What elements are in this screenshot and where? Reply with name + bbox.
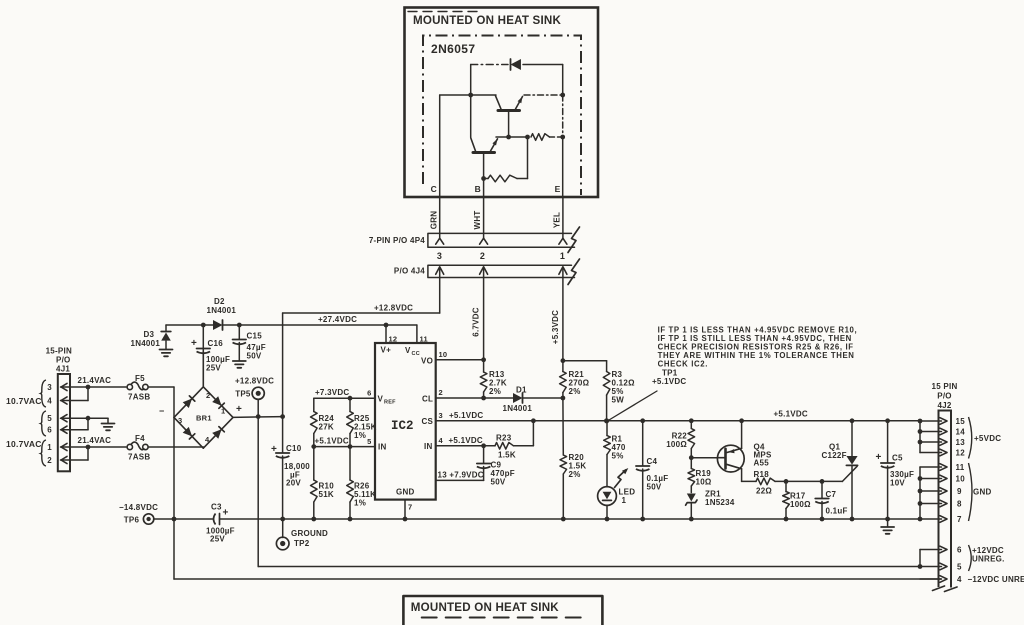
- label C15 47uF: [247, 343, 266, 352]
- label C5 plus: [876, 452, 882, 463]
- node C7 top: [820, 479, 825, 484]
- label pin 2: [439, 388, 443, 397]
- label R20 2%: [569, 470, 581, 479]
- svg-text:3: 3: [439, 411, 443, 420]
- wire ground bus: [220, 518, 921, 520]
- svg-text:C7: C7: [826, 490, 837, 499]
- label C16 plus: [191, 338, 197, 349]
- ground bus junction C5: [885, 517, 890, 522]
- pin 4J2-14: [920, 428, 947, 435]
- svg-text:4J1: 4J1: [56, 365, 70, 374]
- svg-text:1: 1: [622, 496, 627, 505]
- label R25: [354, 414, 370, 423]
- IC2 pin6 line: [314, 397, 375, 399]
- label +7.3VDC: [315, 388, 349, 397]
- wire B lead WHT: [483, 197, 485, 239]
- svg-text:10V: 10V: [890, 479, 905, 488]
- wire B column: [483, 179, 485, 198]
- svg-text:5W: 5W: [612, 396, 625, 405]
- wire -12 unreg drop: [173, 519, 175, 579]
- svg-text:1N4001: 1N4001: [503, 404, 533, 413]
- svg-text:P/O: P/O: [937, 392, 952, 401]
- label IC2: [391, 419, 414, 433]
- svg-text:WHT: WHT: [473, 211, 482, 230]
- svg-text:IC2: IC2: [391, 419, 414, 433]
- resistor R23: [484, 421, 534, 449]
- label C7: [826, 490, 837, 499]
- resistor R1: [604, 421, 611, 487]
- label R3: [612, 370, 623, 379]
- label pin 7: [408, 503, 412, 512]
- connector 4J1 body: [58, 374, 70, 471]
- svg-text:+5.1VDC: +5.1VDC: [774, 410, 808, 419]
- label 7ASB upper: [128, 393, 150, 402]
- svg-text:0.1uF: 0.1uF: [826, 507, 848, 516]
- wire Q4 emitter up: [741, 421, 743, 449]
- label TP1: [662, 369, 678, 378]
- label 21.4VAC upper: [78, 376, 112, 385]
- connector 4J2 break: [933, 586, 958, 592]
- label 4J2 pin 9: [957, 487, 962, 496]
- label pin 5: [367, 437, 371, 446]
- label C15 50V: [247, 352, 262, 361]
- ground C15: [233, 361, 246, 368]
- node TP1 junction: [604, 418, 609, 423]
- node TP5 tap: [256, 414, 261, 419]
- BR1 diode bottom-left: [183, 427, 195, 439]
- label 4J2 pin 6: [957, 546, 962, 555]
- label R17: [790, 492, 806, 501]
- node Q4 emitter bus: [739, 418, 744, 423]
- label MOUNTED ON HEAT SINK (top): [413, 14, 561, 27]
- pin 4J2-12: [920, 449, 947, 456]
- chassis ground bus: [881, 519, 894, 534]
- wire diode to E column: [562, 65, 564, 96]
- svg-text:1%: 1%: [354, 431, 366, 440]
- capacitor C4: [636, 421, 650, 519]
- label R13 2%: [489, 387, 501, 396]
- note text block: [658, 326, 858, 369]
- svg-text:2%: 2%: [489, 387, 501, 396]
- label C9 50V: [491, 478, 506, 487]
- label C5 10V: [890, 479, 905, 488]
- wire +12.8 riser left: [282, 313, 284, 417]
- ground D3: [160, 350, 173, 357]
- svg-text:D3: D3: [144, 330, 155, 339]
- svg-text:2: 2: [439, 388, 443, 397]
- ground bus junction ZR1: [689, 517, 694, 522]
- IC2 pin2 line: [436, 397, 513, 399]
- node C16/D2: [201, 323, 206, 328]
- node R22 top: [689, 418, 694, 423]
- node R26 top: [348, 444, 353, 449]
- label TP6: [124, 516, 140, 525]
- label pin13 +7.9VDC: [438, 471, 484, 480]
- svg-text:C3: C3: [211, 503, 222, 512]
- label BR1 pin3: [178, 416, 182, 425]
- svg-text:+5VDC: +5VDC: [974, 434, 1001, 443]
- wire +12.8VDC rail: [283, 312, 440, 314]
- label 10.7VAC upper: [6, 396, 42, 406]
- svg-text:51K: 51K: [319, 490, 334, 499]
- wire 21.4VAC lower: [88, 446, 126, 448]
- label Q1 C122F: [822, 451, 847, 460]
- svg-text:F4: F4: [135, 434, 145, 443]
- label VCC: [405, 346, 420, 357]
- svg-text:12: 12: [956, 449, 966, 458]
- label R18 22: [756, 487, 772, 496]
- node +12.8 corner: [280, 414, 285, 419]
- svg-text:11: 11: [420, 335, 428, 344]
- svg-text:6: 6: [47, 426, 52, 435]
- svg-text:20V: 20V: [286, 479, 301, 488]
- label BR1 pin1: [221, 407, 225, 416]
- resistor R17: [783, 481, 790, 519]
- label R23: [496, 434, 512, 443]
- svg-text:27K: 27K: [319, 423, 334, 432]
- label pin 6: [47, 426, 52, 435]
- label +12VDC: [972, 546, 1004, 555]
- label 7-PIN P/O 4P4: [369, 236, 425, 245]
- label C5 330uF: [890, 470, 914, 479]
- svg-text:R18: R18: [754, 470, 770, 479]
- ground bus junction C4: [640, 517, 645, 522]
- ground bus junction R10: [311, 517, 316, 522]
- node C4 top: [640, 418, 645, 423]
- label C3 plus: [223, 508, 229, 519]
- svg-text:+: +: [223, 508, 229, 519]
- label R26: [354, 482, 370, 491]
- label C4 0.1uF: [647, 474, 669, 483]
- label C7 0.1uF: [826, 507, 848, 516]
- wire WHT to VO: [483, 278, 485, 360]
- svg-text:+5.1VDC: +5.1VDC: [449, 411, 483, 420]
- bridge rectifier BR1 outline: [174, 387, 233, 448]
- svg-text:2%: 2%: [569, 470, 581, 479]
- svg-text:2: 2: [480, 251, 485, 261]
- svg-text:+5.3VDC: +5.3VDC: [551, 310, 560, 344]
- pin 4J2-6: [920, 546, 947, 553]
- label 10.7VAC lower: [6, 439, 42, 449]
- svg-text:+: +: [876, 452, 882, 463]
- pin 4P4-3: [436, 238, 444, 244]
- node Q1 anode: [850, 418, 855, 423]
- label IN left: [378, 443, 387, 452]
- svg-text:22Ω: 22Ω: [756, 487, 772, 496]
- svg-text:V+: V+: [381, 346, 392, 355]
- node E upper junction: [560, 93, 565, 98]
- pin 4J4-2: [480, 267, 488, 278]
- svg-text:3: 3: [47, 383, 52, 392]
- svg-text:C122F: C122F: [822, 451, 847, 460]
- wire BR1 pin3 down: [173, 417, 175, 519]
- diode D (2N6057 internal): [471, 59, 563, 70]
- svg-text:25V: 25V: [210, 535, 225, 544]
- wire +12.8VDC riser: [439, 278, 441, 314]
- bracket GND: [969, 463, 973, 521]
- label C16: [208, 339, 224, 348]
- label C10: [286, 444, 302, 453]
- zener ZR1: [686, 494, 697, 520]
- node B junction: [481, 176, 486, 181]
- label TP5: [235, 390, 251, 399]
- svg-text:4: 4: [47, 397, 52, 406]
- label R10 51K: [319, 490, 334, 499]
- node X junction b: [525, 135, 530, 140]
- label C9 470pF: [491, 469, 515, 478]
- svg-text:+27.4VDC: +27.4VDC: [318, 315, 357, 324]
- svg-text:4: 4: [957, 575, 962, 584]
- label +12.8VDC rail: [374, 304, 413, 313]
- svg-text:GRN: GRN: [429, 211, 438, 230]
- top box dashed accent: [408, 11, 480, 13]
- wire C lead GRN: [439, 197, 441, 239]
- svg-text:TP5: TP5: [235, 390, 251, 399]
- svg-text:GND: GND: [396, 488, 415, 497]
- transistor Q-drv (2N6057 driver): [471, 138, 498, 179]
- connector 4J4 body: [428, 265, 575, 277]
- pin 4J2-7: [920, 516, 947, 523]
- label pin 5: [47, 414, 52, 423]
- pin 4J2-8: [920, 500, 947, 507]
- pin 4J1-5: [61, 415, 89, 422]
- label P/O 4J4: [394, 267, 425, 276]
- label pin 3: [437, 251, 442, 261]
- wire GND pin tie: [918, 467, 923, 521]
- label BR1 plus: [236, 404, 242, 415]
- ground bus junction C7: [820, 517, 825, 522]
- wire R21/R3 top bar: [563, 360, 607, 362]
- label YEL: [552, 212, 561, 228]
- svg-text:1: 1: [560, 251, 565, 261]
- node R23 bus: [531, 418, 536, 423]
- label R20 1.5K: [569, 462, 587, 471]
- label C4 50V: [647, 483, 662, 492]
- wire C top rail: [440, 94, 496, 96]
- label C10 plus: [271, 444, 277, 455]
- label GRN: [429, 211, 438, 230]
- label R21 270: [569, 379, 590, 388]
- BR1 diode top-left: [183, 396, 195, 408]
- connector 4J4 break: [568, 259, 580, 285]
- svg-text:6.7VDC: 6.7VDC: [471, 307, 480, 337]
- pin label E: [555, 184, 561, 194]
- pin 4P4-2: [480, 238, 488, 244]
- wire pins5-6 to chassis: [88, 418, 108, 423]
- wire -12 unreg line: [174, 578, 941, 580]
- wire tie pins 5-6: [86, 416, 91, 430]
- svg-text:VO: VO: [421, 357, 433, 366]
- label R20: [569, 453, 585, 462]
- label pin4 +5.1VDC: [449, 436, 483, 445]
- connector 4J2 body: [939, 411, 952, 588]
- label 4J2 pin 7: [957, 515, 962, 524]
- label F5: [135, 374, 145, 383]
- label GND out: [973, 488, 992, 497]
- test point TP5: [252, 387, 264, 416]
- label R23 1.5K: [498, 451, 516, 460]
- label pin 3: [439, 411, 443, 420]
- wire D3 branch: [166, 324, 203, 326]
- wire BR1 pin2 up: [202, 325, 204, 387]
- resistor 2N6057 base-emitter: [484, 137, 528, 182]
- label CL: [422, 395, 433, 404]
- bracket +5VDC: [969, 417, 972, 459]
- pin 4J2-11: [920, 464, 947, 471]
- svg-text:2%: 2%: [569, 387, 581, 396]
- label R10: [319, 482, 335, 491]
- label pin 2: [47, 456, 52, 465]
- label 15 PIN P/O 4J2: [932, 382, 958, 410]
- svg-text:11: 11: [956, 463, 965, 472]
- wire BR1 plus line: [233, 416, 283, 419]
- svg-text:C4: C4: [647, 457, 658, 466]
- svg-text:YEL: YEL: [552, 212, 561, 228]
- resistor R10: [311, 447, 318, 519]
- svg-text:+12.8VDC: +12.8VDC: [235, 377, 274, 386]
- svg-text:−: −: [159, 406, 165, 416]
- label D2: [214, 297, 225, 306]
- IC2 pin12 lead: [384, 323, 389, 343]
- node C5 top: [885, 418, 890, 423]
- bracket +12VDC: [969, 545, 972, 571]
- ground bus junction R17: [784, 517, 789, 522]
- capacitor C10: [276, 417, 290, 519]
- label +27.4VDC: [318, 315, 357, 324]
- label V+: [381, 346, 392, 355]
- pin label B: [475, 184, 481, 194]
- node YEL corner: [561, 358, 566, 363]
- wire Q4 base: [691, 457, 717, 459]
- label MOUNTED ON HEAT SINK (bottom): [411, 601, 559, 614]
- transistor Q4: [717, 445, 744, 472]
- wire C column: [439, 95, 441, 197]
- label C4: [647, 457, 658, 466]
- bottom box dashed line: [422, 617, 583, 619]
- label D2 1N4001: [207, 306, 237, 315]
- fuse F4: [127, 442, 148, 450]
- label BR1 pin4: [205, 435, 210, 444]
- svg-text:D1: D1: [516, 386, 527, 395]
- pin 4J1-2: [61, 456, 89, 463]
- wire F4 to BR1: [148, 447, 203, 448]
- svg-text:100Ω: 100Ω: [790, 500, 811, 509]
- label pin 1: [47, 443, 52, 452]
- node -14.8 branch: [172, 517, 177, 522]
- svg-text:6: 6: [957, 546, 962, 555]
- resistor R13: [480, 360, 487, 398]
- wire +12 unreg line: [258, 566, 920, 568]
- connector 4P4 body: [428, 233, 575, 247]
- resistor R20: [560, 455, 567, 519]
- label 4J2 pin 15: [956, 417, 966, 426]
- label R19 10: [696, 478, 712, 487]
- label ZR1 1N5234: [705, 498, 735, 507]
- svg-text:REF: REF: [384, 400, 396, 406]
- label C10 20V: [286, 479, 301, 488]
- label Q1: [829, 443, 840, 452]
- label R24: [319, 414, 335, 423]
- svg-text:MOUNTED ON HEAT SINK: MOUNTED ON HEAT SINK: [411, 601, 559, 614]
- label R22 100: [666, 440, 687, 449]
- label C3 1000uF: [206, 527, 235, 536]
- label GND: [396, 488, 415, 497]
- label ZR1: [705, 490, 721, 499]
- wire diode to C column: [470, 65, 472, 96]
- node R25 top: [348, 396, 353, 401]
- svg-text:TP2: TP2: [294, 539, 310, 548]
- label GROUND: [291, 529, 328, 538]
- svg-text:F5: F5: [135, 374, 145, 383]
- svg-text:+: +: [191, 338, 197, 349]
- node R17 top: [784, 479, 789, 484]
- diode D1: [513, 393, 563, 403]
- svg-text:7: 7: [408, 503, 412, 512]
- svg-text:7: 7: [957, 515, 962, 524]
- label 4J2 pin 4: [957, 575, 962, 584]
- node X junction a: [506, 135, 511, 140]
- label 4J2 pin 13: [956, 438, 966, 447]
- capacitor C7: [815, 481, 829, 519]
- svg-text:3: 3: [178, 416, 182, 425]
- svg-text:GND: GND: [973, 488, 992, 497]
- label R1: [612, 435, 623, 444]
- label C15: [247, 332, 263, 341]
- svg-text:15-PIN: 15-PIN: [46, 347, 72, 356]
- label pin 11: [420, 335, 428, 344]
- label LED: [619, 488, 636, 497]
- label pin 3: [47, 383, 52, 392]
- diode D2: [203, 320, 239, 330]
- svg-text:V: V: [378, 395, 384, 404]
- label LED 1: [622, 496, 627, 505]
- transistor Q-out (2N6057 output): [496, 96, 523, 137]
- node pin10/WHT: [481, 357, 486, 362]
- svg-text:15 PIN: 15 PIN: [932, 382, 958, 391]
- pin 4J2-4: [920, 576, 947, 583]
- svg-text:BR1: BR1: [196, 414, 212, 423]
- node R24 bottom: [311, 444, 316, 449]
- label 4J2 pin 10: [956, 475, 966, 484]
- test point TP6: [143, 514, 153, 524]
- svg-text:−14.8VDC: −14.8VDC: [119, 503, 158, 512]
- svg-text:10: 10: [956, 475, 966, 484]
- pin 4J1-4: [61, 397, 89, 404]
- pin label C: [431, 184, 437, 194]
- svg-text:10Ω: 10Ω: [696, 478, 712, 487]
- label R19: [696, 469, 712, 478]
- test point TP2: [276, 519, 289, 550]
- resistor R22: [688, 421, 695, 458]
- svg-text:+: +: [236, 404, 242, 415]
- label BR1 minus: [159, 406, 165, 416]
- svg-text:R23: R23: [496, 434, 512, 443]
- svg-text:IN: IN: [424, 442, 433, 451]
- label R3 5%: [612, 387, 624, 396]
- svg-text:C16: C16: [208, 339, 224, 348]
- svg-text:V: V: [405, 346, 411, 355]
- svg-text:UNREG.: UNREG.: [972, 555, 1005, 564]
- wire node X: [496, 136, 528, 138]
- wire +27.4VDC rail: [239, 324, 417, 326]
- capacitor C16: [197, 349, 211, 387]
- label -14.8VDC: [119, 503, 158, 512]
- label BR1: [196, 414, 212, 423]
- transistor 2N6057 dashed boundary: [423, 36, 581, 196]
- ground bus junction C10: [280, 517, 285, 522]
- svg-text:7-PIN P/O 4P4: 7-PIN P/O 4P4: [369, 236, 425, 245]
- regulator IC2 body: [375, 343, 436, 500]
